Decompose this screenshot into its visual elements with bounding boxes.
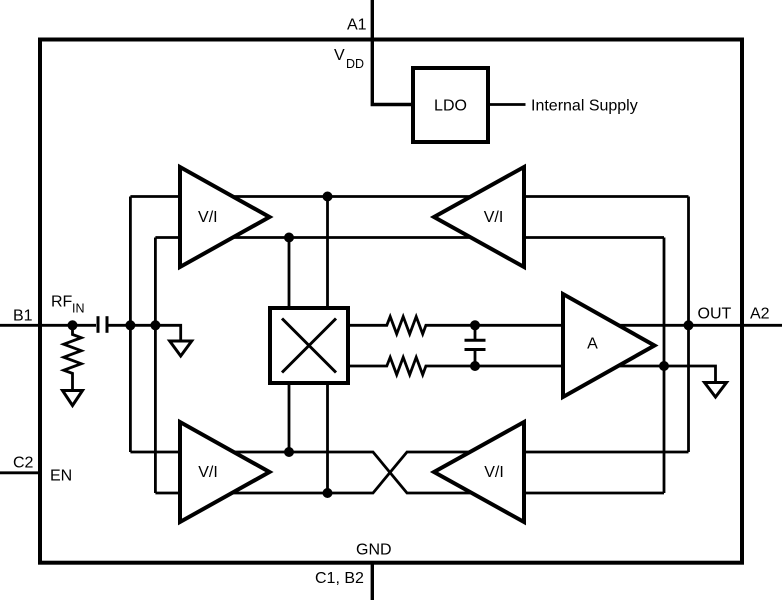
- svg-text:A2: A2: [750, 306, 770, 323]
- svg-text:EN: EN: [50, 468, 72, 485]
- svg-text:GND: GND: [356, 542, 392, 559]
- svg-text:C2: C2: [13, 455, 34, 472]
- svg-text:V: V: [334, 47, 345, 64]
- svg-text:IN: IN: [72, 302, 85, 316]
- svg-text:LDO: LDO: [434, 98, 467, 115]
- svg-text:Internal Supply: Internal Supply: [531, 98, 638, 115]
- svg-text:V/I: V/I: [484, 464, 504, 481]
- svg-text:C1, B2: C1, B2: [315, 570, 364, 587]
- svg-text:DD: DD: [346, 57, 364, 71]
- svg-text:A1: A1: [347, 17, 367, 34]
- svg-text:A: A: [587, 336, 598, 353]
- svg-text:OUT: OUT: [698, 306, 732, 323]
- svg-text:V/I: V/I: [198, 464, 218, 481]
- svg-text:V/I: V/I: [484, 209, 504, 226]
- svg-text:RF: RF: [51, 294, 73, 311]
- svg-text:V/I: V/I: [198, 209, 218, 226]
- svg-text:B1: B1: [13, 308, 33, 325]
